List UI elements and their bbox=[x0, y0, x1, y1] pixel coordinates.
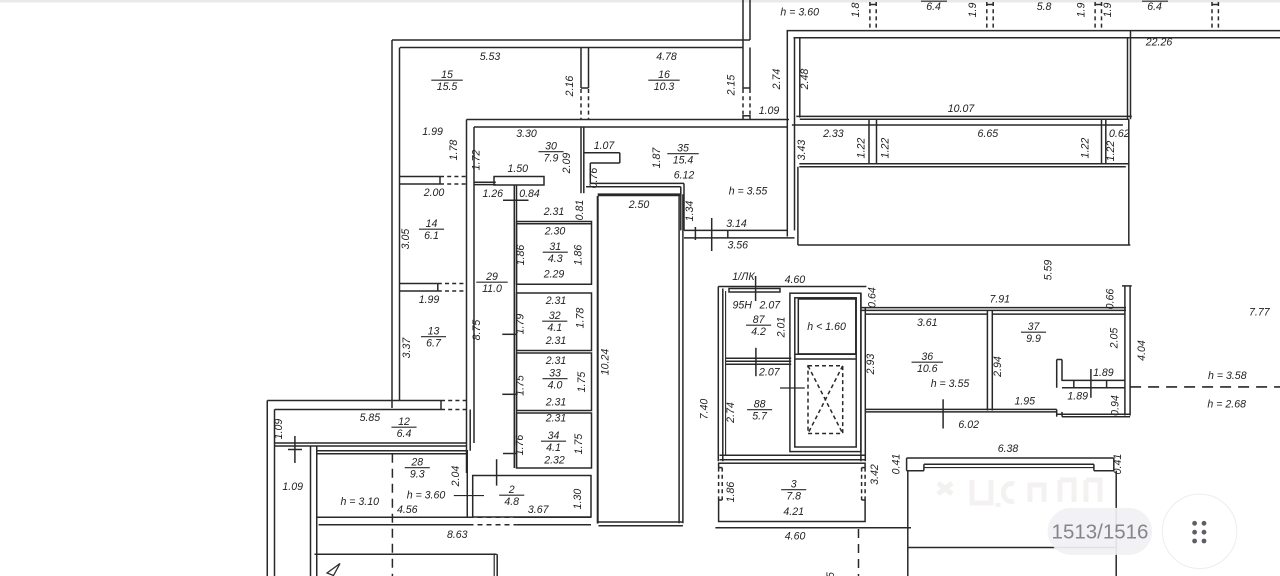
svg-text:6.4: 6.4 bbox=[397, 428, 412, 440]
stair block right wall bbox=[860, 293, 862, 461]
svg-text:1.86: 1.86 bbox=[573, 245, 585, 266]
svg-text:h = 2.68: h = 2.68 bbox=[1207, 399, 1246, 411]
svg-text:0.94: 0.94 bbox=[1109, 395, 1121, 416]
svg-text:1.09: 1.09 bbox=[273, 419, 285, 440]
wall between 36 and 37 bbox=[986, 310, 988, 410]
dim tick 1/LK bbox=[755, 276, 757, 301]
bottom band right block bbox=[1057, 413, 1130, 415]
svg-text:3.56: 3.56 bbox=[727, 240, 748, 252]
svg-text:13: 13 bbox=[428, 326, 440, 338]
svg-text:32: 32 bbox=[549, 310, 561, 322]
svg-text:h = 3.55: h = 3.55 bbox=[729, 186, 768, 198]
svg-text:4.8: 4.8 bbox=[504, 496, 519, 508]
svg-text:4.21: 4.21 bbox=[783, 506, 804, 518]
svg-text:3.42: 3.42 bbox=[869, 464, 881, 485]
svg-text:2.94: 2.94 bbox=[992, 356, 1004, 378]
svg-text:16: 16 bbox=[658, 69, 670, 81]
svg-text:1.89: 1.89 bbox=[1067, 391, 1088, 403]
svg-text:8.63: 8.63 bbox=[447, 529, 468, 541]
svg-text:4.56: 4.56 bbox=[397, 504, 418, 516]
svg-text:2.29: 2.29 bbox=[543, 269, 565, 281]
svg-text:2.15: 2.15 bbox=[726, 75, 738, 97]
svg-text:2.09: 2.09 bbox=[561, 153, 573, 175]
corridor inner left cap bbox=[799, 38, 801, 118]
svg-text:5: 5 bbox=[825, 572, 837, 576]
grid button dots bbox=[1192, 521, 1206, 544]
dashed section line left bbox=[391, 454, 393, 576]
corridor bottom wall bbox=[796, 115, 1132, 117]
window above corridor 1 bbox=[869, 2, 871, 31]
shelf side wall bbox=[474, 181, 496, 183]
svg-text:6.65: 6.65 bbox=[977, 128, 998, 140]
closet divider tick bbox=[503, 199, 529, 201]
svg-text:1.22: 1.22 bbox=[856, 138, 868, 159]
svg-text:2.16: 2.16 bbox=[564, 76, 576, 98]
window above corridor 3 bbox=[1094, 2, 1096, 31]
svg-text:2.74: 2.74 bbox=[725, 402, 737, 424]
svg-text:1.22: 1.22 bbox=[1080, 138, 1092, 159]
svg-text:6.4: 6.4 bbox=[926, 1, 941, 13]
room 36 bottom wall bbox=[865, 408, 1056, 410]
outer wall left lower block bbox=[266, 401, 268, 576]
window pier left bbox=[868, 119, 870, 164]
svg-text:4.04: 4.04 bbox=[1136, 340, 1148, 361]
svg-text:1/ЛК: 1/ЛК bbox=[732, 271, 755, 283]
svg-text:0.81: 0.81 bbox=[574, 200, 586, 221]
svg-text:6.7: 6.7 bbox=[426, 338, 442, 350]
leader line h=3.60 bbox=[454, 495, 484, 497]
svg-text:22.26: 22.26 bbox=[1145, 37, 1173, 49]
svg-text:28: 28 bbox=[410, 457, 423, 469]
svg-text:0.66: 0.66 bbox=[1104, 289, 1116, 310]
dashed level line right bbox=[1130, 386, 1280, 388]
svg-text:2.50: 2.50 bbox=[628, 199, 650, 211]
svg-text:7.8: 7.8 bbox=[786, 491, 801, 503]
svg-text:87: 87 bbox=[753, 314, 766, 326]
wall between rooms 30 and 35 bbox=[580, 127, 582, 193]
stair landing top bar bbox=[729, 289, 780, 293]
svg-text:4.1: 4.1 bbox=[546, 442, 561, 454]
lift door tick bbox=[780, 387, 805, 389]
wall bottom of room 13 bbox=[267, 400, 441, 402]
wall between rooms 15 and 16 bbox=[580, 48, 582, 89]
svg-text:12: 12 bbox=[398, 416, 410, 428]
hall bottom wall bbox=[599, 521, 683, 523]
big room bottom wall bbox=[798, 244, 1131, 246]
door tick room 34 bbox=[503, 453, 517, 455]
outer wall top (rooms 15-16) bbox=[392, 39, 750, 41]
svg-text:1.72: 1.72 bbox=[471, 150, 483, 171]
door tick room 32 bbox=[502, 333, 516, 335]
svg-text:2.00: 2.00 bbox=[423, 187, 445, 199]
dim tick 2.07 bbox=[755, 348, 757, 376]
room 37 lower wall bbox=[1062, 379, 1125, 381]
svg-text:1.75: 1.75 bbox=[576, 372, 588, 393]
hook wall in room 35 bbox=[584, 152, 620, 154]
lower block right wall bbox=[493, 554, 495, 576]
dim line 8.63 tick bbox=[496, 459, 498, 485]
room 33 box bbox=[517, 353, 592, 411]
svg-text:1.8: 1.8 bbox=[850, 3, 862, 18]
svg-text:4.0: 4.0 bbox=[548, 380, 563, 392]
svg-text:35: 35 bbox=[677, 143, 689, 155]
dim tick 3.14 left bbox=[711, 218, 713, 251]
svg-text:3.14: 3.14 bbox=[726, 218, 747, 230]
room 3 right window dashed bbox=[864, 468, 867, 500]
balcony parapet rail bbox=[924, 463, 1094, 465]
wall left of room 28 bbox=[310, 446, 312, 576]
window above corridor 2 bbox=[986, 2, 988, 31]
dim tick 6.02 bbox=[942, 399, 944, 428]
room 12 floor box bbox=[275, 442, 467, 444]
svg-text:1.86: 1.86 bbox=[725, 482, 737, 503]
room 34 box bbox=[517, 413, 592, 468]
svg-text:4.1: 4.1 bbox=[547, 322, 562, 334]
svg-text:5.8: 5.8 bbox=[1037, 1, 1052, 13]
svg-text:31: 31 bbox=[549, 241, 561, 253]
svg-text:1.99: 1.99 bbox=[422, 126, 443, 138]
svg-text:3.67: 3.67 bbox=[528, 504, 550, 516]
svg-text:h < 1.60: h < 1.60 bbox=[807, 321, 846, 333]
svg-text:11.0: 11.0 bbox=[482, 283, 502, 295]
room 3 box bbox=[719, 463, 866, 521]
svg-text:2.31: 2.31 bbox=[545, 335, 567, 347]
svg-text:2.31: 2.31 bbox=[545, 295, 567, 307]
svg-text:9.9: 9.9 bbox=[1026, 333, 1041, 345]
dim tick 1.89 bbox=[1090, 369, 1092, 398]
faint watermark bbox=[938, 480, 1100, 507]
svg-text:3.43: 3.43 bbox=[796, 140, 808, 161]
svg-text:15: 15 bbox=[441, 69, 453, 81]
svg-text:10.24: 10.24 bbox=[600, 349, 612, 376]
svg-text:0.62: 0.62 bbox=[1109, 128, 1130, 140]
svg-text:4.2: 4.2 bbox=[751, 326, 766, 338]
door tick room 33 bbox=[502, 393, 516, 395]
svg-text:3.37: 3.37 bbox=[401, 337, 413, 359]
svg-text:2.31: 2.31 bbox=[543, 206, 565, 218]
svg-text:1513/1516: 1513/1516 bbox=[1052, 521, 1149, 544]
outer wall left (rooms 15,14,13) bbox=[391, 40, 393, 408]
svg-text:0.41: 0.41 bbox=[1112, 454, 1124, 475]
svg-text:1.75: 1.75 bbox=[515, 375, 527, 396]
svg-text:14: 14 bbox=[426, 218, 438, 230]
stair landing mid bars bbox=[725, 357, 791, 359]
svg-text:2.07: 2.07 bbox=[758, 300, 781, 312]
window sill band line bbox=[792, 124, 1123, 126]
lift outer box bbox=[790, 293, 861, 451]
svg-text:6.38: 6.38 bbox=[998, 443, 1019, 455]
wardrobe shelf bbox=[494, 177, 544, 186]
svg-text:7.40: 7.40 bbox=[698, 399, 710, 420]
corridor top wall bbox=[787, 30, 1280, 32]
svg-text:h = 3.58: h = 3.58 bbox=[1208, 370, 1247, 382]
svg-text:2.31: 2.31 bbox=[545, 396, 567, 408]
svg-text:4.3: 4.3 bbox=[548, 253, 563, 265]
dashed section line below room 3 bbox=[858, 529, 860, 576]
svg-text:4.60: 4.60 bbox=[785, 274, 806, 286]
svg-text:15.4: 15.4 bbox=[673, 155, 694, 167]
balcony right wall bbox=[1115, 471, 1117, 576]
svg-text:95Н: 95Н bbox=[732, 300, 752, 312]
dim tick 3.14 mid bbox=[694, 227, 696, 240]
svg-text:30: 30 bbox=[545, 141, 557, 153]
svg-text:3.61: 3.61 bbox=[917, 317, 938, 329]
svg-text:3.05: 3.05 bbox=[400, 229, 412, 250]
rooms 36-37 inner top line bbox=[865, 313, 987, 315]
svg-text:1.78: 1.78 bbox=[448, 140, 460, 161]
right column wall upper bbox=[1127, 38, 1129, 119]
svg-text:10.6: 10.6 bbox=[917, 363, 938, 375]
wall between rooms 14 and 13 bbox=[400, 283, 438, 285]
svg-text:2.74: 2.74 bbox=[771, 69, 783, 91]
svg-text:1.89: 1.89 bbox=[1093, 367, 1114, 379]
svg-text:10.3: 10.3 bbox=[654, 81, 675, 93]
svg-text:1.09: 1.09 bbox=[759, 105, 780, 117]
balcony parapet right cap bbox=[1093, 464, 1095, 470]
svg-text:6.02: 6.02 bbox=[958, 419, 979, 431]
lift shaft dashed bbox=[808, 366, 843, 434]
svg-text:1.78: 1.78 bbox=[575, 308, 587, 329]
svg-text:6.12: 6.12 bbox=[674, 170, 695, 182]
svg-text:h = 3.60: h = 3.60 bbox=[407, 490, 446, 502]
hall right wall bbox=[678, 194, 680, 523]
room 28 bottom wall bbox=[319, 516, 469, 518]
window pier right bbox=[1101, 119, 1103, 164]
svg-text:3: 3 bbox=[791, 479, 797, 491]
svg-text:1.22: 1.22 bbox=[1105, 141, 1117, 162]
corridor 29 left wall bbox=[466, 120, 468, 474]
wall top of rooms 30/35 row bbox=[467, 119, 790, 121]
room 3 left window dashed bbox=[717, 468, 720, 500]
svg-text:0.84: 0.84 bbox=[519, 188, 540, 200]
svg-text:1.22: 1.22 bbox=[879, 138, 891, 159]
room 31 box bbox=[517, 222, 592, 285]
corridor 29 right wall bbox=[513, 185, 515, 468]
hall top thick wall bbox=[598, 193, 681, 196]
svg-text:1.9: 1.9 bbox=[1102, 3, 1114, 18]
svg-text:1.9: 1.9 bbox=[1076, 3, 1088, 18]
svg-text:29: 29 bbox=[485, 271, 498, 283]
balcony bottom line bbox=[908, 547, 1116, 549]
svg-text:1.75: 1.75 bbox=[573, 434, 585, 455]
page counter pill bbox=[1048, 508, 1153, 555]
big room right wall bbox=[1128, 119, 1130, 245]
svg-text:1.87: 1.87 bbox=[651, 147, 663, 169]
svg-text:1.26: 1.26 bbox=[482, 188, 503, 200]
room 28 box bbox=[317, 451, 468, 518]
room 2 box bbox=[473, 476, 591, 518]
lift inner box bbox=[795, 298, 856, 447]
svg-text:1.86: 1.86 bbox=[515, 245, 527, 266]
svg-text:0.64: 0.64 bbox=[867, 287, 879, 308]
grid button circle bbox=[1162, 494, 1236, 568]
wall 3.14 segment bbox=[684, 229, 787, 231]
svg-text:5.85: 5.85 bbox=[360, 412, 381, 424]
room 32 box bbox=[517, 293, 592, 351]
room h<1.60 inner box bbox=[798, 299, 856, 354]
room h<1.60 box bbox=[795, 353, 856, 355]
rooms 36-37 top wall bbox=[861, 307, 1126, 309]
svg-text:1.34: 1.34 bbox=[684, 201, 696, 222]
svg-text:0.76: 0.76 bbox=[588, 168, 600, 189]
svg-text:2.05: 2.05 bbox=[1108, 328, 1120, 350]
wall right of room 16 bbox=[742, 0, 744, 120]
svg-text:36: 36 bbox=[921, 351, 933, 363]
svg-text:9.3: 9.3 bbox=[410, 469, 425, 481]
svg-text:2.31: 2.31 bbox=[545, 413, 567, 425]
svg-text:1.07: 1.07 bbox=[594, 140, 616, 152]
svg-text:6.1: 6.1 bbox=[424, 230, 439, 242]
wall right of corridor lower bbox=[469, 410, 471, 451]
big room top wall bbox=[799, 163, 1129, 165]
hall left wall bbox=[597, 196, 599, 524]
svg-text:4.78: 4.78 bbox=[656, 51, 677, 63]
svg-text:5.53: 5.53 bbox=[480, 51, 501, 63]
dim line left bbox=[294, 436, 296, 463]
svg-text:2.48: 2.48 bbox=[799, 69, 811, 91]
top page border band bbox=[0, 0, 1280, 3]
svg-text:2.31: 2.31 bbox=[545, 355, 567, 367]
svg-text:5.59: 5.59 bbox=[1043, 260, 1055, 281]
svg-text:0.41: 0.41 bbox=[890, 454, 902, 475]
svg-text:1.76: 1.76 bbox=[514, 435, 526, 456]
svg-text:34: 34 bbox=[548, 430, 560, 442]
wall column x680-684 bbox=[680, 187, 682, 231]
svg-text:15.5: 15.5 bbox=[437, 81, 458, 93]
balcony parapet left cap bbox=[906, 458, 908, 471]
svg-text:7.77: 7.77 bbox=[1249, 307, 1271, 319]
svg-text:2.04: 2.04 bbox=[450, 466, 462, 488]
wall top of room 14 bbox=[400, 176, 440, 178]
lower block top wall bbox=[315, 553, 497, 555]
svg-text:h = 3.60: h = 3.60 bbox=[780, 7, 819, 19]
svg-text:1.95: 1.95 bbox=[1014, 396, 1035, 408]
svg-text:7.91: 7.91 bbox=[989, 294, 1010, 306]
svg-text:2.93: 2.93 bbox=[865, 354, 877, 376]
svg-text:4.60: 4.60 bbox=[785, 531, 806, 543]
svg-text:2.30: 2.30 bbox=[544, 226, 566, 238]
svg-text:33: 33 bbox=[549, 368, 561, 380]
balcony parapet top bbox=[907, 457, 1114, 459]
svg-text:8.75: 8.75 bbox=[471, 320, 483, 341]
svg-text:2.01: 2.01 bbox=[775, 317, 787, 339]
svg-text:2.33: 2.33 bbox=[822, 128, 844, 140]
right block wall bbox=[1124, 286, 1126, 416]
big room left inner edge bbox=[797, 167, 799, 245]
svg-text:2: 2 bbox=[508, 484, 515, 496]
line below room 3 bbox=[715, 527, 911, 529]
svg-text:2.32: 2.32 bbox=[543, 455, 565, 467]
svg-text:6.4: 6.4 bbox=[1147, 1, 1162, 13]
svg-text:10.07: 10.07 bbox=[948, 103, 976, 115]
svg-text:1.99: 1.99 bbox=[419, 294, 440, 306]
svg-text:7.9: 7.9 bbox=[544, 153, 559, 165]
svg-text:37: 37 bbox=[1028, 321, 1041, 333]
room 37 pillar bbox=[1056, 360, 1058, 388]
window above corridor 4 bbox=[1211, 2, 1213, 31]
svg-text:1.79: 1.79 bbox=[515, 314, 527, 335]
svg-text:88: 88 bbox=[754, 399, 766, 411]
stair block bottom wall bbox=[720, 454, 866, 456]
svg-text:1.9: 1.9 bbox=[967, 3, 979, 18]
balcony left wall bbox=[907, 471, 909, 576]
svg-text:1.30: 1.30 bbox=[572, 489, 584, 510]
svg-text:5.7: 5.7 bbox=[752, 411, 768, 423]
svg-text:1.09: 1.09 bbox=[282, 481, 303, 493]
stair block top wall bbox=[718, 286, 866, 288]
svg-text:1.50: 1.50 bbox=[507, 163, 528, 175]
svg-text:3.30: 3.30 bbox=[516, 128, 537, 140]
corridor left wall bbox=[786, 31, 788, 237]
svg-text:h = 3.55: h = 3.55 bbox=[931, 378, 970, 390]
wall south of room 35 bbox=[590, 182, 684, 184]
svg-text:2.07: 2.07 bbox=[758, 367, 781, 379]
stair block left wall bbox=[717, 287, 719, 462]
svg-text:h = 3.10: h = 3.10 bbox=[340, 496, 379, 508]
stair arrow lower block bbox=[327, 564, 340, 576]
